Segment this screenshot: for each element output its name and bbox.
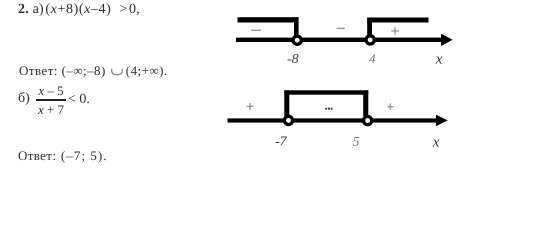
svg-text:4: 4 <box>369 51 376 66</box>
svg-text:5: 5 <box>353 135 360 150</box>
svg-text:-7: -7 <box>275 135 288 150</box>
svg-text:-8: -8 <box>287 52 299 67</box>
svg-text:x: x <box>435 51 443 67</box>
svg-text:x: x <box>432 135 440 151</box>
